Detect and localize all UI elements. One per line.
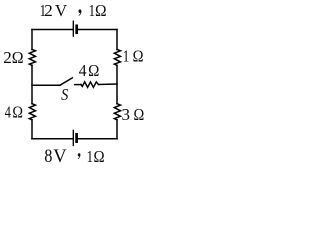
battery E1 12V long plate — [72, 21, 74, 36]
battery E2 8V long plate — [72, 130, 74, 145]
wire left lower — [31, 120, 33, 139]
resistor R 3ohm zigzag — [114, 104, 120, 120]
wire left upper — [31, 30, 33, 50]
svg-text:4: 4 — [79, 61, 87, 80]
svg-text:4: 4 — [5, 102, 11, 121]
svg-text:V: V — [55, 1, 68, 20]
svg-text:Ω: Ω — [12, 102, 23, 121]
wire right lower — [116, 120, 118, 139]
wire middle-left segment — [32, 84, 60, 86]
svg-text:Ω: Ω — [88, 61, 99, 80]
svg-text:2: 2 — [3, 48, 12, 67]
resistor R 2ohm zigzag — [29, 49, 35, 65]
wire middle between switch and resistor — [75, 84, 81, 86]
svg-text:Ω: Ω — [94, 147, 105, 166]
svg-text:1: 1 — [123, 47, 129, 66]
svg-text:3: 3 — [122, 105, 131, 124]
battery E2 8V short thick plate — [75, 134, 78, 141]
wire right middle — [116, 65, 118, 103]
resistor R 4ohm-middle zigzag — [81, 82, 99, 87]
svg-text:1: 1 — [87, 147, 93, 166]
resistor R 4ohm-left zigzag — [29, 104, 35, 120]
wire bottom-right segment — [78, 138, 117, 140]
wire middle-right segment — [99, 83, 118, 86]
svg-text:Ω: Ω — [133, 105, 144, 124]
svg-text:Ω: Ω — [133, 47, 144, 66]
wire top-right segment — [79, 29, 117, 31]
svg-text:Ω: Ω — [12, 48, 24, 67]
wire left middle — [31, 65, 33, 103]
label comma top — [78, 9, 81, 16]
svg-text:2: 2 — [44, 1, 53, 20]
svg-text:V: V — [53, 147, 67, 167]
svg-text:8: 8 — [44, 147, 52, 167]
resistor R 1ohm zigzag — [114, 49, 120, 65]
svg-text:S: S — [61, 85, 69, 104]
wire right upper — [116, 30, 118, 50]
svg-text:Ω: Ω — [95, 1, 107, 20]
label comma bottom — [78, 153, 81, 159]
wire top-left segment — [32, 29, 73, 31]
battery E1 12V short thick plate — [75, 26, 78, 33]
wire bottom-left segment — [32, 138, 73, 140]
switch S blade — [60, 78, 72, 85]
